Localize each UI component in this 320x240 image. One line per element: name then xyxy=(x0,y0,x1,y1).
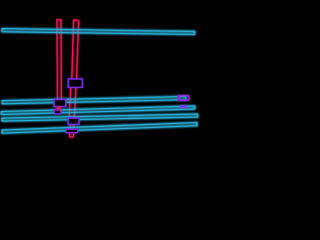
red tube R3 (right vertical element, lower section) xyxy=(69,86,76,120)
node block B1 (filled violet block on wire L2) xyxy=(180,105,187,108)
component box P2 (left column box) xyxy=(54,100,66,107)
red stub R5 (between left boxes P2 and P2b) xyxy=(58,107,60,111)
component box P1 (right column upper box) xyxy=(68,79,82,87)
red tube R1 (left vertical element) xyxy=(57,20,62,101)
connector box P5 (top right, around end of wire L1) xyxy=(178,96,189,101)
wire L2 (second middle wire) xyxy=(1,106,195,115)
red tube R2 (right vertical element, upper section) xyxy=(72,20,79,83)
base plate P4 (flat box under P3) xyxy=(66,129,78,132)
wire W1 (top horizontal wire) xyxy=(2,29,195,35)
component box P2b (small square below P2) xyxy=(54,110,60,114)
wire L3 (third middle wire) xyxy=(2,114,198,121)
component box P3 (right column lower box) xyxy=(68,118,79,124)
wire L1 (first middle wire) xyxy=(2,97,186,104)
red stub R4 (below bottom plate) xyxy=(69,124,74,137)
wire L4 (fourth middle wire) xyxy=(2,123,197,134)
